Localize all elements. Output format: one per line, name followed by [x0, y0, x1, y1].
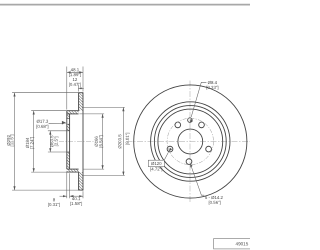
flange plate top segment (hatched)	[67, 114, 70, 119]
disc friction band top (hatched)	[79, 93, 84, 111]
40.1 arrows	[70, 195, 74, 197]
48.1 dim	[66, 67, 68, 110]
svg-text:Ø203.5: Ø203.5	[117, 134, 122, 149]
bottom dims	[66, 171, 68, 198]
flange bolt hole edges	[66, 117, 70, 119]
outer circle dia292	[134, 85, 247, 198]
disc top edge	[78, 92, 83, 94]
disc bottom edge	[78, 189, 83, 191]
flange outer face	[66, 111, 68, 169]
dia120 label box	[148, 160, 164, 166]
disc outer face	[82, 93, 84, 190]
17.3 leader arrow	[62, 121, 66, 125]
friction inner circle dia203.5	[151, 102, 230, 181]
dia 203.5 dim	[122, 107, 124, 175]
disc friction band bottom (hatched)	[79, 172, 84, 190]
svg-text:[0.47"]: [0.47"]	[69, 82, 81, 87]
bolt circle dia120 (dash-dot)	[167, 118, 213, 164]
dia8.4 leader	[191, 82, 206, 117]
top border line	[0, 4, 250, 6]
drum wall bottom (hatched)	[67, 169, 79, 172]
set screw hole dia8.4	[188, 118, 193, 123]
bolt holes 5 x dia14.2	[186, 159, 192, 165]
drum wall bottom inner line	[67, 168, 79, 170]
drum wall top outer line	[67, 110, 79, 112]
disc inner face bottom	[78, 172, 80, 190]
svg-text:[1.58"]: [1.58"]	[70, 201, 82, 206]
svg-text:[7.24"]: [7.24"]	[29, 137, 34, 149]
dia 292 dim	[14, 93, 16, 190]
flange plate bottom segment (hatched)	[67, 152, 70, 169]
dia184 arrows	[33, 111, 35, 115]
leaders	[164, 82, 206, 195]
center bore dia63.5	[178, 129, 203, 154]
drum wall bottom outer line	[67, 171, 79, 173]
disc inner face top	[78, 93, 80, 111]
flange plate mid segment (hatched)	[67, 124, 70, 131]
drum circle dia184	[154, 106, 226, 178]
svg-text:[0.68"]: [0.68"]	[36, 124, 48, 129]
dia292 arrows	[13, 93, 15, 97]
svg-text:[4.72"]: [4.72"]	[150, 167, 162, 172]
17.3 leader	[49, 122, 66, 125]
svg-text:[0.56"]: [0.56"]	[208, 200, 220, 205]
title block	[214, 239, 252, 249]
centerlines	[189, 81, 191, 203]
hat circle dia166	[158, 109, 223, 174]
front view labels	[150, 80, 224, 205]
center bore edges	[66, 130, 70, 132]
dimension lines	[12, 67, 125, 199]
dia203.5 arrows	[122, 107, 124, 111]
svg-text:[2.5"]: [2.5"]	[54, 136, 59, 146]
arrowheads	[13, 71, 124, 197]
svg-text:[11.5"]: [11.5"]	[9, 134, 14, 146]
rotated labels	[6, 133, 130, 150]
svg-text:49015: 49015	[236, 241, 249, 246]
section centerline	[59, 140, 96, 142]
svg-text:[0.33"]: [0.33"]	[206, 85, 218, 90]
drum wall top (hatched)	[67, 111, 79, 114]
5-dia14.2 leader	[191, 165, 204, 195]
dia166 arrows	[102, 114, 104, 118]
svg-text:[0.31"]: [0.31"]	[48, 202, 60, 207]
svg-text:[8.01"]: [8.01"]	[125, 133, 130, 145]
svg-text:Ø120: Ø120	[151, 161, 162, 166]
section text labels	[6, 67, 130, 207]
12 dim	[78, 85, 80, 92]
drum wall top inner line	[67, 113, 79, 115]
svg-text:[6.54"]: [6.54"]	[98, 135, 103, 147]
dia 184 dim	[33, 111, 35, 172]
dia120 leader	[164, 152, 168, 160]
8 dim arrows (outside)	[63, 195, 67, 197]
flange inner face	[69, 114, 71, 169]
12 arrows (outside)	[79, 87, 82, 89]
dia63.5 arrows	[49, 131, 51, 135]
dia 63.5 dim	[49, 131, 51, 152]
48.1 arrows	[67, 71, 71, 73]
dia 166 dim	[102, 114, 104, 169]
